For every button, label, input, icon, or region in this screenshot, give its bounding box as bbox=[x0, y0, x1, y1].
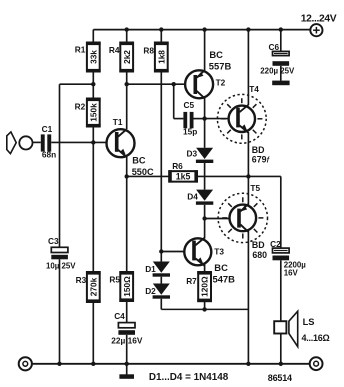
svg-text:12...24V: 12...24V bbox=[301, 13, 337, 24]
svg-text:D1: D1 bbox=[145, 264, 156, 274]
svg-text:ƒ: ƒ bbox=[266, 156, 270, 163]
svg-text:R2: R2 bbox=[75, 102, 86, 112]
svg-text:679: 679 bbox=[252, 154, 267, 164]
svg-text:33k: 33k bbox=[88, 50, 98, 64]
svg-text:D1...D4 = 1N4148: D1...D4 = 1N4148 bbox=[149, 372, 229, 383]
svg-text:1k5: 1k5 bbox=[176, 172, 191, 182]
svg-text:C2: C2 bbox=[270, 239, 281, 249]
svg-text:D3: D3 bbox=[187, 148, 198, 158]
svg-text:R4: R4 bbox=[109, 45, 120, 55]
svg-text:R6: R6 bbox=[172, 161, 183, 171]
svg-text:C4: C4 bbox=[114, 311, 125, 321]
svg-text:T1: T1 bbox=[113, 117, 123, 127]
svg-text:BD: BD bbox=[252, 240, 265, 250]
svg-text:D4: D4 bbox=[187, 192, 198, 202]
svg-text:550C: 550C bbox=[132, 167, 154, 177]
svg-text:68n: 68n bbox=[42, 150, 56, 160]
svg-text:R7: R7 bbox=[186, 276, 197, 286]
svg-text:270k: 270k bbox=[88, 277, 98, 296]
svg-text:150Ω: 150Ω bbox=[122, 276, 132, 297]
svg-text:D2: D2 bbox=[145, 286, 156, 296]
svg-text:T5: T5 bbox=[250, 183, 260, 193]
svg-text:547B: 547B bbox=[213, 273, 236, 284]
svg-text:LS: LS bbox=[303, 317, 315, 327]
svg-text:680: 680 bbox=[252, 250, 267, 260]
svg-text:R5: R5 bbox=[109, 275, 120, 285]
svg-text:BC: BC bbox=[209, 49, 223, 60]
svg-text:120Ω: 120Ω bbox=[200, 276, 210, 297]
svg-text:T3: T3 bbox=[214, 247, 224, 257]
svg-text:R8: R8 bbox=[143, 46, 154, 56]
svg-text:86514: 86514 bbox=[268, 373, 292, 383]
svg-text:22µ 16V: 22µ 16V bbox=[111, 335, 143, 345]
svg-text:R1: R1 bbox=[75, 44, 86, 54]
svg-text:1k8: 1k8 bbox=[156, 50, 166, 64]
svg-text:BD: BD bbox=[252, 145, 265, 155]
svg-text:T4: T4 bbox=[249, 84, 259, 94]
svg-text:150k: 150k bbox=[88, 103, 98, 122]
svg-text:4...16Ω: 4...16Ω bbox=[302, 333, 330, 343]
svg-text:2k2: 2k2 bbox=[122, 50, 132, 64]
svg-text:557B: 557B bbox=[209, 61, 232, 72]
svg-text:T2: T2 bbox=[216, 78, 226, 88]
svg-text:C3: C3 bbox=[48, 236, 59, 246]
svg-text:C5: C5 bbox=[184, 100, 195, 110]
svg-text:16V: 16V bbox=[284, 268, 299, 277]
svg-text:220µ 25V: 220µ 25V bbox=[260, 66, 295, 75]
svg-text:10µ 25V: 10µ 25V bbox=[46, 261, 76, 270]
svg-text:C1: C1 bbox=[42, 124, 53, 134]
svg-text:15p: 15p bbox=[183, 126, 197, 136]
svg-text:C6: C6 bbox=[269, 42, 280, 52]
svg-text:R3: R3 bbox=[76, 275, 87, 285]
svg-text:BC: BC bbox=[214, 262, 228, 273]
svg-text:BC: BC bbox=[132, 155, 146, 165]
